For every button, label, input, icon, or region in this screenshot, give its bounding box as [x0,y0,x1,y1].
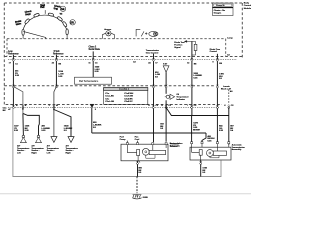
svg-text:24: 24 [148,61,151,64]
svg-text:Left: Left [17,152,21,155]
internal resistor R2 [137,150,140,156]
connector at W4 [152,58,154,61]
svg-text:1: 1 [139,161,141,163]
instrument panel cluster dashed box [4,3,242,105]
solenoid box (right) [190,147,231,160]
temperature sensor Q1 (thermistor) [22,135,25,138]
connector dotted line below lower dashed line [8,107,219,109]
wire W8 from connector down to solenoid box [228,108,230,144]
svg-text:0.5: 0.5 [202,172,206,174]
lamp bead B4 on arc [57,16,63,21]
svg-text:0.35: 0.35 [207,141,212,143]
svg-text:Gear Control: Gear Control [146,51,159,54]
svg-text:0.5: 0.5 [93,127,97,129]
wire W7 diode tree control [216,54,218,142]
svg-text:E: E [161,105,163,107]
title block box [213,3,234,16]
svg-text:0.35: 0.35 [25,130,30,132]
svg-text:M: M [56,105,58,107]
fork from W1 to sensor branch [13,87,23,114]
connector at W3 [92,58,94,61]
wire to temperature sensor 1 [22,113,25,136]
svg-text:0.5: 0.5 [219,78,223,80]
lamp bead B5 on arc [62,21,67,27]
svg-text:Belt: Belt [40,6,44,9]
branch wire to temperature sensor 2 [23,113,39,136]
lamp bead B1 on arc [24,18,30,24]
svg-text:Signal: Signal [174,47,181,49]
svg-text:Warn: Warn [15,22,22,26]
svg-text:0.5: 0.5 [64,130,68,132]
svg-text:Block = 27: Block = 27 [221,89,232,91]
wire W6 diode tree position signal [191,41,193,115]
svg-text:0.5: 0.5 [160,128,164,130]
circled indicator symbol K2 [70,20,75,25]
svg-text:Module: Module [244,8,251,10]
svg-text:CLASS 2: CLASS 2 [119,88,130,91]
temperature sensor Q4 (arrow symbol) [68,137,74,143]
svg-text:C2: C2 [231,105,234,107]
wire stub from left bead to display outline [22,35,24,39]
svg-text:B: B [25,105,27,107]
svg-text:U: U [224,105,226,107]
arrow wire from resistor to label [185,41,196,43]
hidden wire to splice block (dashed) [228,90,230,105]
svg-text:0.35: 0.35 [41,130,46,132]
svg-text:Gauges: Gauges [214,12,222,14]
connector at W7 [216,58,218,61]
leader stub at arc apex [44,10,46,14]
connector at W2 [55,58,57,61]
svg-text:G305: G305 [143,197,149,199]
junction dot on W8 [228,143,230,145]
wire W5 from splice arrow down [165,72,167,94]
svg-text:9: 9 [212,62,214,64]
svg-text:C2: C2 [155,105,158,107]
PRNDL display symbol [136,29,158,36]
svg-text:Ref Schematics: Ref Schematics [79,79,99,83]
junction dot on W6 at bus [191,132,193,134]
svg-text:T: T [187,105,189,107]
svg-text:D: D [148,105,150,107]
wire from indicator fork: vertical to pump box pin [165,100,167,141]
pump body rect [149,150,165,154]
svg-text:BK: BK [3,110,6,112]
svg-text:C2: C2 [168,105,171,107]
connector at W1 C1 [12,58,14,61]
svg-text:Control: Control [210,50,218,53]
wire W6 continues to solenoid pin [191,116,193,142]
svg-text:11: 11 [88,62,91,64]
svg-text:L: L [49,105,51,107]
svg-text:17: 17 [155,62,158,64]
svg-text:Right: Right [31,152,37,155]
svg-text:0.5: 0.5 [138,172,142,174]
svg-text:0.4: 0.4 [230,129,234,132]
ground G305 [132,192,141,199]
svg-text:Left: Left [47,152,51,155]
gauge arc (telltale lamp chain) [23,15,67,32]
svg-text:B6: B6 [58,63,61,65]
solenoid internal resistor R3 [192,147,200,152]
ground wire from solenoid box [200,160,202,177]
pump motor M1 [142,148,149,155]
svg-text:C1=T-GN: C1=T-GN [124,96,133,98]
class 2 data table box [104,88,148,105]
resistor leads [195,41,197,44]
right end lamp bead [66,29,68,35]
pin squares on pump box [126,143,167,145]
svg-text:AB: AB [61,7,65,11]
lamp bead B2 on arc [33,13,39,18]
svg-text:Accum: Accum [104,28,111,31]
cluster inner display dashed outline [7,39,226,57]
temperature sensor Q2 (thermistor) [37,135,40,138]
svg-text:SR: SR [70,21,74,25]
svg-text:0.35: 0.35 [15,75,20,77]
svg-text:0.35: 0.35 [193,78,198,80]
svg-text:B8: B8 [194,63,197,65]
pump internal wiring [127,145,136,153]
resistor R1 [194,44,197,50]
svg-text:C1=8 WH: C1=8 WH [124,93,133,95]
svg-text:0.35: 0.35 [95,71,100,73]
low reference gray return wire [13,108,221,177]
connector dotted line C1 below cluster [8,59,237,61]
hidden ground wire below assembly [136,177,138,193]
svg-text:Assembly: Assembly [232,148,243,151]
svg-text:C2=4 BK: C2=4 BK [124,97,133,100]
wire stub from right bead to display outline [66,35,68,39]
data link reference box [75,77,112,84]
junction dot at right fork [53,109,55,111]
svg-text:0.35: 0.35 [219,130,224,132]
pin squares on solenoid box [191,142,230,144]
fork diagonal and horizontal to W6 [166,108,229,116]
bus drop to pin 2 [202,133,206,142]
telltale label TL1 [15,19,23,26]
svg-text:A9: A9 [230,90,233,93]
svg-text:Pump: Pump [120,139,127,141]
svg-text:47: 47 [8,108,11,111]
temperature sensor Q3 (arrow symbol) [51,137,57,143]
supply arrow splice S2 [90,104,94,107]
horizontal bus wire [92,132,206,134]
svg-text:Control: Control [244,4,251,7]
svg-text:Cluster - No: Cluster - No [214,9,226,12]
wire W1 low reference (cluster to splice) [12,55,14,108]
5 volt ref jog [54,87,57,137]
svg-text:vc: vc [60,12,63,15]
telltale label TL2 [25,10,33,16]
svg-text:C1=L-BU: C1=L-BU [105,96,114,98]
a/t temperature indicator driver U1 [165,94,175,99]
branch wire to temperature sensor 4 [54,110,71,137]
svg-text:Serial Data: Serial Data [89,48,101,51]
gauge needle wire [23,31,46,38]
svg-text:C1: C1 [95,63,98,65]
wire W3 class 2 serial data [92,51,94,77]
svg-text:Cool: Cool [135,139,140,141]
solenoid body rect [213,151,226,155]
telltale label TL3 [40,4,45,9]
svg-text:Comp St: Comp St [216,4,225,7]
svg-text:C2=L-GN: C2=L-GN [105,101,114,103]
connector at W6 [191,58,193,61]
svg-text:5 Volt: 5 Volt [54,50,60,53]
svg-text:BK/WH: BK/WH [193,130,201,132]
pin stubs into solenoid box [192,144,229,148]
svg-text:Lamp: Lamp [227,38,233,40]
circled indicator symbol K1 [60,6,65,11]
svg-text:Right: Right [66,152,72,155]
svg-text:Reference: Reference [53,53,64,55]
wire from arrow splice to bus [91,108,93,134]
connector mark W7 lower [216,105,218,108]
svg-text:2: 2 [95,109,97,111]
telltale label TL4 [53,5,61,12]
svg-text:0.35: 0.35 [14,130,19,132]
ground wire from pump box [137,161,139,177]
svg-text:17: 17 [9,62,12,64]
svg-text:B9: B9 [219,63,222,65]
accumulator indicator lamp on display line [102,31,114,39]
svg-text:0.5: 0.5 [155,77,159,79]
pump box (left) [121,144,168,161]
junction dot at fork [22,108,24,110]
svg-text:S 47: S 47 [163,62,168,65]
wire W4 transmission gear control [153,54,155,142]
svg-text:C2: C2 [194,105,197,107]
left end lamp bead [22,29,24,35]
svg-text:33: 33 [52,62,55,64]
lamp bead B3 on arc [48,13,54,17]
page divider rule [0,193,251,195]
wire W2 5 volt reference [55,55,57,87]
svg-text:C2: C2 [133,61,136,63]
connector marks at lower dashed/dotted line [12,105,14,108]
svg-text:12: 12 [187,62,190,64]
svg-text:Indicator: Indicator [176,98,185,101]
svg-text:C2=8 GY: C2=8 GY [124,101,133,103]
svg-text:Control: Control [170,145,178,148]
connector marks at middle dashed line [12,85,14,88]
svg-text:C1: C1 [15,63,18,65]
svg-text:0.35: 0.35 [58,76,63,78]
solenoid motor M2 [207,150,214,157]
svg-text:Eng: Eng [53,7,58,11]
